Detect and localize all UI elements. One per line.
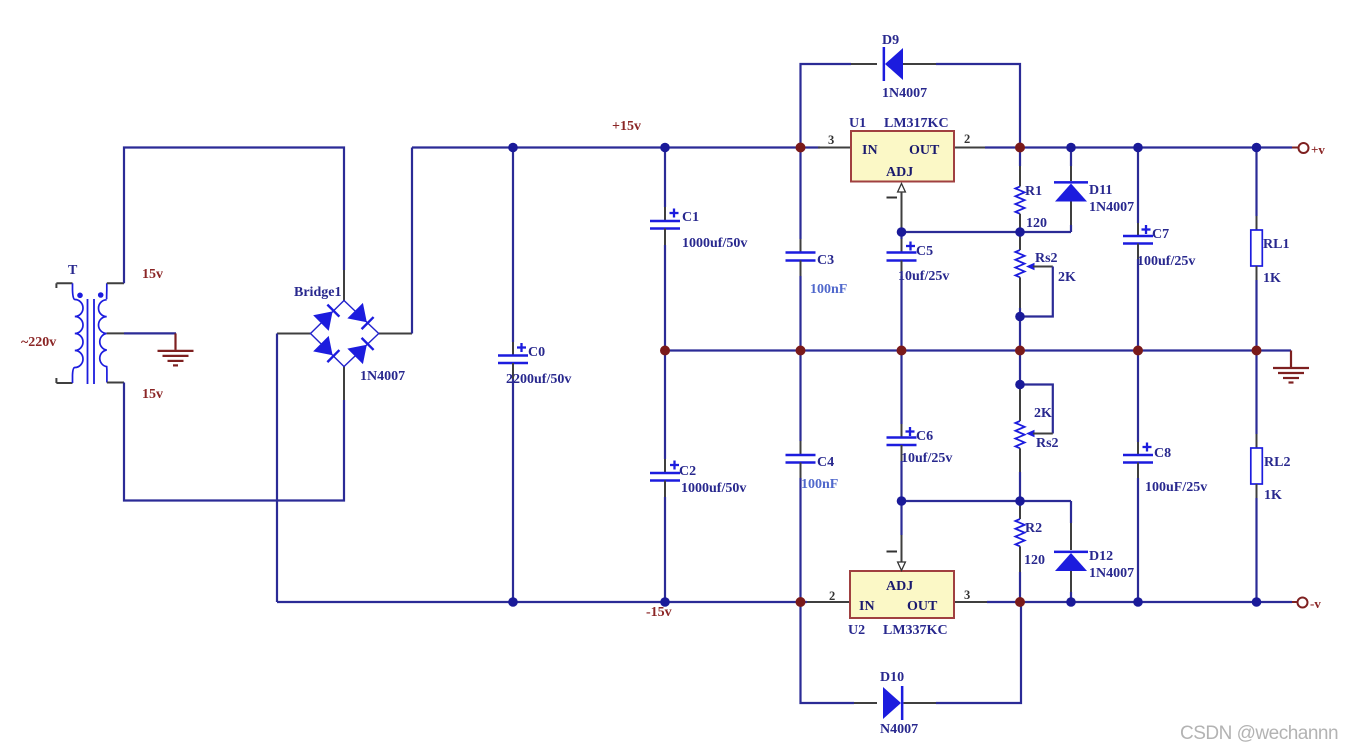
svg-text:120: 120 <box>1026 216 1047 231</box>
svg-text:15v: 15v <box>142 387 163 402</box>
wire Rs2-2 upper stub <box>1019 385 1021 422</box>
wire RL2 lower <box>1256 484 1258 498</box>
bridge diode (upper-right) <box>347 303 376 332</box>
svg-text:2: 2 <box>829 589 835 603</box>
wire +v rail (OUT side) <box>985 146 1292 148</box>
svg-text:100uF/25v: 100uF/25v <box>1145 480 1207 495</box>
svg-text:100nF: 100nF <box>810 282 847 297</box>
potentiometer Rs2 (upper) <box>1015 250 1024 277</box>
svg-text:3: 3 <box>828 133 834 147</box>
svg-text:C0: C0 <box>528 345 545 360</box>
svg-text:LM317KC: LM317KC <box>884 116 949 131</box>
junction (513,147.5) <box>508 143 518 153</box>
wire ground rail stub right <box>1290 349 1292 352</box>
svg-text:CSDN @wechannn: CSDN @wechannn <box>1180 723 1338 744</box>
wire D12 top stub <box>1070 501 1072 523</box>
transformer T secondary lead (top) <box>107 282 124 284</box>
wire bridge left to -15v rail corner <box>276 334 278 603</box>
capacitor C1 <box>650 220 680 223</box>
junction (1256.5,602) <box>1252 597 1262 607</box>
wire -15v rail <box>277 601 807 603</box>
potentiometer Rs2 (lower) <box>1015 421 1024 448</box>
transformer T secondary center tap lead <box>107 332 124 334</box>
wire C7 column lower <box>1137 244 1139 260</box>
junction (800.5,350.5) red <box>796 346 806 356</box>
svg-text:OUT: OUT <box>907 599 938 614</box>
label + (C7) <box>1142 228 1151 230</box>
wire stub bridge top <box>343 270 345 301</box>
junction (901.5,350.5) red <box>897 346 907 356</box>
capacitor C2 <box>650 472 680 475</box>
svg-text:D11: D11 <box>1089 183 1112 198</box>
svg-text:1N4007: 1N4007 <box>1089 566 1134 581</box>
ground (transformer center tap) <box>158 333 194 365</box>
svg-text:2200uf/50v: 2200uf/50v <box>506 372 571 387</box>
wire RL1 upper <box>1255 148 1257 217</box>
wire C2 column upper <box>664 351 666 460</box>
wire -v rail (OUT side) <box>987 601 1292 603</box>
pin 1 arrow (U1 ADJ) <box>898 184 906 193</box>
svg-text:3: 3 <box>964 588 970 602</box>
op-amp U1 body <box>851 131 954 182</box>
svg-text:Rs2: Rs2 <box>1035 251 1058 266</box>
wire Rs2 to ground rail <box>1019 317 1021 351</box>
svg-text:1000uf/50v: 1000uf/50v <box>681 481 746 496</box>
wire U1 ADJ down <box>901 192 903 229</box>
svg-text:ADJ: ADJ <box>886 579 913 594</box>
wire bridge right up to +15v rail <box>411 148 413 334</box>
transformer T core <box>87 299 89 384</box>
svg-text:T: T <box>68 263 78 278</box>
svg-text:OUT: OUT <box>909 143 940 158</box>
svg-text:C5: C5 <box>916 244 933 259</box>
wire +15v rail <box>412 146 820 148</box>
wire Rs2-2 wiper loop (lower) <box>1020 385 1053 434</box>
svg-text:D9: D9 <box>882 33 899 48</box>
wire RL2 upper <box>1255 351 1257 435</box>
transformer T phase dot (primary) <box>77 293 83 299</box>
svg-text:C4: C4 <box>817 455 834 470</box>
junction (513,602) <box>508 597 518 607</box>
wire C1 column upper <box>664 148 666 208</box>
capacitor C4 <box>786 454 816 457</box>
svg-text:2K: 2K <box>1034 406 1052 421</box>
wire C0 column upper <box>512 148 514 343</box>
junction (800.5,147.5) red <box>796 143 806 153</box>
junction (1071,602) <box>1066 597 1076 607</box>
resistor R1 <box>1015 187 1024 214</box>
wire C7 column upper <box>1137 148 1139 224</box>
label + (C5) <box>906 245 915 247</box>
capacitor C0 <box>498 354 528 357</box>
svg-text:ADJ: ADJ <box>886 165 913 180</box>
wire secondary bottom down-right <box>124 383 344 501</box>
junction (901.5,501) <box>897 496 907 506</box>
svg-text:LM337KC: LM337KC <box>883 623 948 638</box>
bridge diode (upper-left) <box>313 302 342 331</box>
wire Rs2-2 lower stub <box>1019 448 1021 472</box>
junction (1020,501) <box>1015 496 1025 506</box>
svg-text:Bridge1: Bridge1 <box>294 285 341 300</box>
label + (C0) <box>517 346 526 348</box>
junction (1071,147.5) <box>1066 143 1076 153</box>
wire C5 column lower <box>901 261 903 277</box>
svg-text:+15v: +15v <box>612 119 641 134</box>
transformer T primary winding <box>73 283 84 383</box>
wire center tap to ground <box>124 332 176 334</box>
wire C5 column upper <box>900 232 902 239</box>
junction (665,602) <box>660 597 670 607</box>
wire D9 loop right <box>903 63 936 65</box>
svg-text:R2: R2 <box>1025 521 1042 536</box>
junction (1138,602) <box>1133 597 1143 607</box>
wire C2 column lower <box>664 481 666 498</box>
svg-text:15v: 15v <box>142 267 163 282</box>
wire U2 ADJ up <box>900 501 902 535</box>
wire D12 bottom stub <box>1070 571 1072 592</box>
diode D11 <box>1054 181 1088 201</box>
wire R2 bottom stub <box>1019 546 1021 572</box>
terminal -v ring <box>1292 601 1297 603</box>
junction (665,147.5) <box>660 143 670 153</box>
wire stub U2 IN <box>807 601 850 603</box>
wire D10 loop left <box>801 602 855 703</box>
wire D9 loop left <box>801 64 852 148</box>
svg-text:C8: C8 <box>1154 446 1171 461</box>
wire ADJ node rail (upper) <box>902 231 1072 233</box>
junction (1138,147.5) <box>1133 143 1143 153</box>
wire stub U1 OUT <box>954 147 986 149</box>
capacitor C8 <box>1123 454 1153 457</box>
wire C1 column lower <box>664 229 666 246</box>
op-amp U2 body <box>850 571 954 618</box>
wire C3 column lower <box>800 261 802 277</box>
label + (C1) <box>670 212 679 214</box>
wire R1 top stub <box>1019 148 1021 167</box>
svg-text:D12: D12 <box>1089 549 1113 564</box>
label + (C8) <box>1143 446 1152 448</box>
wire R1 bottom stub <box>1019 214 1021 232</box>
pin 1 arrow (U2 ADJ) <box>898 562 906 571</box>
svg-text:D10: D10 <box>880 670 904 685</box>
svg-text:100nF: 100nF <box>801 477 838 492</box>
wire C8 column upper <box>1137 351 1139 443</box>
wire RL1 lower <box>1256 266 1258 280</box>
svg-text:U2: U2 <box>848 623 865 638</box>
capacitor C7 <box>1123 235 1153 238</box>
bridge rectifier Bridge1 diamond <box>311 301 379 367</box>
svg-text:100uf/25v: 100uf/25v <box>1137 254 1195 269</box>
wire R2 top stub <box>1019 501 1021 506</box>
svg-text:C6: C6 <box>916 429 933 444</box>
junction (1020,350.5) red <box>1015 346 1025 356</box>
wire C4 column lower <box>800 463 802 479</box>
svg-text:C1: C1 <box>682 210 699 225</box>
wire ADJ node rail (lower) <box>902 500 1072 502</box>
wiper arrow Rs2 (upper) <box>1026 263 1035 270</box>
svg-text:C2: C2 <box>679 464 696 479</box>
transformer T phase dot (secondary) <box>98 292 104 298</box>
wire stub U2 OUT <box>954 601 988 603</box>
svg-text:1K: 1K <box>1263 271 1281 286</box>
svg-text:RL2: RL2 <box>1264 455 1290 470</box>
junction (800.5,602) red <box>796 597 806 607</box>
wire C3 column upper <box>799 148 801 240</box>
transformer T secondary winding <box>98 283 106 382</box>
junction (1020,384.5) <box>1015 380 1025 390</box>
wire stub bridge left <box>277 333 311 335</box>
resistor RL1 body <box>1251 230 1263 266</box>
resistor RL2 body <box>1251 448 1263 484</box>
svg-text:IN: IN <box>859 599 875 614</box>
svg-text:U1: U1 <box>849 116 866 131</box>
wire D11 top stub <box>1070 148 1072 167</box>
svg-text:1N4007: 1N4007 <box>882 86 927 101</box>
junction (1020,602) red <box>1015 597 1025 607</box>
junction (1138,350.5) red <box>1133 346 1143 356</box>
terminal +v ring <box>1292 147 1298 149</box>
svg-text:10uf/25v: 10uf/25v <box>898 269 949 284</box>
wire secondary top to +rail <box>124 148 344 284</box>
svg-text:+v: +v <box>1311 142 1325 157</box>
wire D11 bottom stub <box>1070 202 1072 226</box>
label + (C2) <box>670 464 679 466</box>
wire C6 column upper <box>900 351 902 425</box>
svg-text:1N4007: 1N4007 <box>1089 200 1134 215</box>
label + (C6) <box>906 430 915 432</box>
svg-text:RL1: RL1 <box>1263 237 1289 252</box>
diode D12 <box>1054 551 1088 571</box>
wire C6 column lower <box>901 445 903 461</box>
diode D9 <box>883 47 903 81</box>
wire D10 loop right <box>904 702 937 704</box>
svg-text:1N4007: 1N4007 <box>360 369 405 384</box>
wire Rs2 bottom stub <box>1019 277 1021 308</box>
svg-text:N4007: N4007 <box>880 722 918 737</box>
svg-text:10uf/25v: 10uf/25v <box>901 451 952 466</box>
svg-text:C3: C3 <box>817 253 834 268</box>
junction (1020,316.5) <box>1015 312 1025 322</box>
transformer T secondary lead (bottom) <box>107 382 124 384</box>
svg-text:-15v: -15v <box>646 605 672 620</box>
svg-text:1K: 1K <box>1264 488 1282 503</box>
svg-text:IN: IN <box>862 143 878 158</box>
junction (901.5,232) <box>897 227 907 237</box>
bridge diode (lower-right) <box>347 335 376 364</box>
junction (1256.5,350.5) red <box>1252 346 1262 356</box>
wire Rs2 wiper loop (upper) <box>1020 267 1053 317</box>
pin 1 label (U1 ADJ) <box>887 197 898 199</box>
wire stub U1 IN <box>818 147 851 149</box>
pin 1 label (U2 ADJ) <box>887 551 898 553</box>
wiper arrow Rs2 (lower) <box>1026 430 1035 437</box>
capacitor C6 <box>887 436 917 439</box>
svg-text:2: 2 <box>964 132 970 146</box>
capacitor C3 <box>786 251 816 254</box>
junction (1020,147.5) red <box>1015 143 1025 153</box>
transformer T primary lead (top) <box>56 282 72 284</box>
wire stub bridge right <box>379 333 412 335</box>
diode D10 <box>883 686 903 720</box>
svg-text:1000uf/50v: 1000uf/50v <box>682 236 747 251</box>
junction (1256.5,147.5) <box>1252 143 1262 153</box>
wire C8 column lower <box>1137 463 1139 479</box>
ground (output common) <box>1273 351 1309 383</box>
capacitor C5 <box>887 251 917 254</box>
wire stub bridge bottom <box>343 367 345 401</box>
svg-text:-v: -v <box>1310 596 1321 611</box>
wire Rs2-2 top <box>1019 351 1021 385</box>
wire ground rail <box>665 349 1291 351</box>
svg-text:120: 120 <box>1024 553 1045 568</box>
bridge diode (lower-left) <box>313 336 342 365</box>
svg-text:R1: R1 <box>1025 184 1042 199</box>
junction (665,350.5) red <box>660 346 670 356</box>
svg-text:Rs2: Rs2 <box>1036 436 1059 451</box>
svg-text:C7: C7 <box>1152 227 1169 242</box>
wire Rs2 top stub <box>1019 232 1021 250</box>
junction (1020,232) <box>1015 227 1025 237</box>
resistor R2 <box>1015 519 1024 546</box>
svg-text:~220v: ~220v <box>21 335 56 350</box>
svg-text:2K: 2K <box>1058 270 1076 285</box>
wire C0 column lower <box>512 363 514 379</box>
wire C4 column upper <box>799 351 801 442</box>
transformer T primary lead (bottom) <box>56 382 72 384</box>
